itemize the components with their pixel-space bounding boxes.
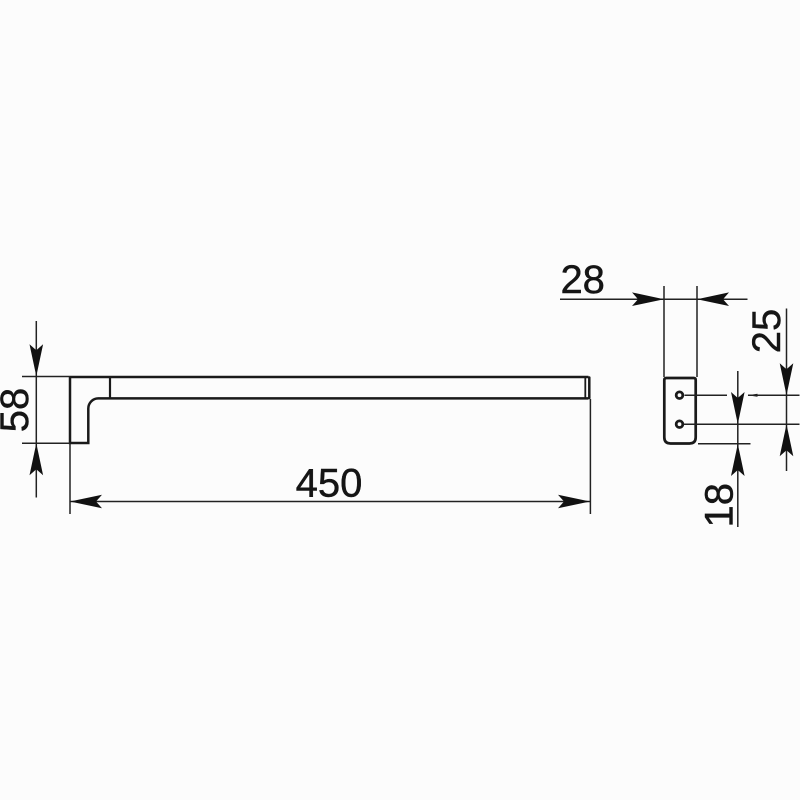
top hole leader line bbox=[685, 394, 800, 396]
450 dimension left arrow bbox=[70, 495, 102, 509]
58 dimension bottom arrow bbox=[30, 443, 44, 475]
svg-text:28: 28 bbox=[560, 258, 605, 302]
bar end tick bbox=[584, 377, 586, 398]
28 left extension line bbox=[663, 286, 665, 377]
58 bottom extension line bbox=[22, 442, 70, 444]
28 dimension line bbox=[560, 298, 748, 300]
18 dimension lower arrow bbox=[731, 444, 745, 476]
wall plate outline bbox=[664, 378, 695, 444]
bottom hole leader line bbox=[684, 423, 800, 425]
450 right extension line bbox=[589, 399, 591, 514]
18 dimension upper arrow bbox=[731, 392, 745, 424]
plate bottom extension line bbox=[698, 443, 751, 445]
svg-text:18: 18 bbox=[697, 483, 741, 528]
450 dimension line bbox=[70, 501, 590, 503]
25 dimension line bbox=[786, 309, 788, 472]
18 dimension line bbox=[737, 371, 739, 527]
screw hole top bbox=[676, 392, 683, 399]
450 dimension right arrow bbox=[558, 495, 590, 509]
bracket outline bbox=[70, 377, 589, 443]
58 dimension top arrow bbox=[30, 344, 44, 376]
svg-text:58: 58 bbox=[0, 388, 37, 433]
58 top extension line bbox=[22, 376, 70, 378]
svg-text:25: 25 bbox=[745, 309, 789, 354]
28 dimension left arrow bbox=[632, 292, 664, 306]
28 right extension line bbox=[696, 286, 698, 377]
svg-text:450: 450 bbox=[296, 461, 363, 505]
58 dimension line bbox=[35, 321, 37, 498]
28 dimension right arrow bbox=[697, 292, 729, 306]
towel bar top edge bbox=[70, 376, 589, 379]
screw hole bottom bbox=[676, 421, 683, 428]
top hole leader line start taper bbox=[748, 394, 758, 397]
25 dimension lower arrow bbox=[780, 424, 794, 456]
bracket/bar joint tick bbox=[109, 377, 111, 398]
25 dimension upper arrow bbox=[780, 363, 794, 395]
bar end cap bbox=[588, 378, 591, 399]
450 left extension line bbox=[69, 444, 71, 514]
